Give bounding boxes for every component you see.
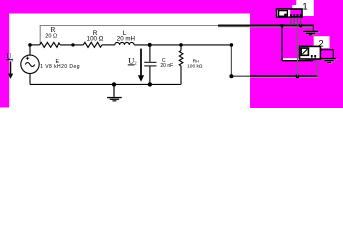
oscilloscope XSC1 icon (277, 9, 302, 25)
ground1 stem (312, 26, 314, 31)
U2 voltage arrow (140, 49, 142, 76)
svg-text:1: 1 (12, 58, 14, 63)
background white (0, 0, 343, 115)
resistor RH top lead (180, 45, 182, 51)
label box 2 (white) (314, 36, 330, 48)
svg-text:1 V8 kH20 Deg: 1 V8 kH20 Deg (40, 64, 80, 70)
wire: rail seg source to R1 (30, 44, 40, 46)
wire under bode y60.7 (282, 60, 314, 62)
ground2 bars (322, 58, 338, 61)
bode pin stems (311, 57, 313, 61)
ground mid bars (107, 97, 122, 98)
junction dot scope pin4 (299, 24, 303, 28)
U1 voltage arrow (left edge) (10, 61, 12, 73)
magenta left strip (0, 0, 9, 108)
svg-text:20 mH: 20 mH (117, 35, 135, 42)
label box 1 (white) (296, 0, 314, 16)
magenta right block (250, 0, 343, 108)
ground mid stem (113, 84, 115, 96)
capacitor C top lead (149, 45, 151, 62)
bode right pin wire (320, 49, 333, 51)
junction dot R1-R2 (71, 43, 74, 46)
gray vert x317 (316, 61, 318, 76)
scope tap vertical x282 (281, 26, 283, 61)
bode pin pads (311, 55, 313, 57)
wire: top loop dark segment (218, 25, 314, 27)
wire: RH bottom corner (180, 66, 182, 85)
voltage source E circle (21, 55, 39, 73)
source E bottom lead (29, 74, 31, 85)
wire: bottom rail (30, 83, 181, 85)
wire: output drop x231.4 (230, 45, 232, 76)
bode plotter XBP2 icon (300, 46, 321, 60)
ground2 stem (332, 50, 334, 58)
source sine (25, 63, 35, 67)
source plus sign (26, 57, 29, 60)
svg-text:2: 2 (134, 61, 136, 66)
junction dot cap bottom (148, 82, 152, 86)
wire: output horizontal white part (231, 75, 250, 77)
junction dot cap top (148, 43, 152, 47)
scope pin pads (290, 14, 292, 17)
wire: output horizontal magenta part (250, 75, 318, 77)
svg-text:20 nF: 20 nF (160, 63, 173, 69)
svg-text:1: 1 (302, 2, 307, 13)
resistor R2 zigzag (83, 42, 102, 47)
wire: rail seg R1 to R2 (60, 44, 83, 46)
capacitor C bottom lead (149, 66, 151, 84)
capacitor C plates (144, 62, 156, 63)
junction dot ground bottom (112, 82, 116, 86)
inductor L coils (115, 42, 134, 45)
junction dot output/scopeB (296, 74, 300, 78)
white band above under-bode wire (283, 58, 306, 60)
svg-text:100 Ω: 100 Ω (87, 35, 104, 42)
wire: rail seg R2 to L (102, 44, 115, 46)
junction dot source/rail (28, 43, 32, 47)
gray vert x297.5 (scope B to output) (297, 26, 299, 77)
junction dot out top (230, 43, 234, 47)
junction dot RH top (179, 43, 183, 47)
source E top lead (29, 45, 31, 55)
svg-text:100 kΩ: 100 kΩ (187, 63, 203, 69)
bode right pin pad (318, 49, 321, 51)
magenta top strip (0, 0, 250, 14)
junction dot scope tap (280, 24, 283, 27)
resistor RH zigzag (vertical) (179, 51, 183, 66)
scope pin stems (291, 17, 301, 25)
resistor R1 zigzag (40, 42, 61, 47)
ground1 bars (304, 31, 319, 34)
wire: top loop gray segment (40, 26, 218, 45)
junction dot out corner (229, 74, 233, 78)
svg-text:20 Ω: 20 Ω (45, 34, 57, 40)
wire: rail seg L to out (134, 44, 231, 46)
